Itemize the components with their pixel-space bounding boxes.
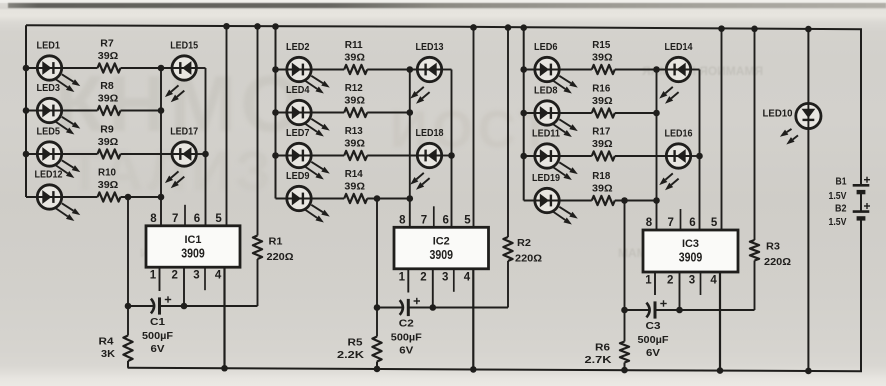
svg-text:5: 5 [215, 213, 222, 225]
svg-text:LED12: LED12 [35, 168, 63, 180]
svg-text:LED18: LED18 [416, 127, 444, 139]
svg-text:7: 7 [667, 217, 673, 229]
svg-text:8: 8 [646, 217, 653, 229]
svg-text:LED3: LED3 [37, 82, 61, 94]
svg-text:LED6: LED6 [534, 41, 558, 53]
svg-text:39Ω: 39Ω [344, 180, 365, 192]
svg-text:IC1: IC1 [185, 234, 202, 246]
svg-text:39Ω: 39Ω [98, 136, 119, 148]
svg-text:500µF: 500µF [638, 334, 670, 346]
svg-text:1: 1 [645, 275, 652, 287]
svg-text:LED15: LED15 [170, 39, 198, 51]
svg-text:4: 4 [464, 271, 471, 283]
svg-text:39Ω: 39Ω [98, 179, 119, 191]
svg-text:39Ω: 39Ω [98, 50, 119, 62]
svg-text:LED8: LED8 [534, 84, 558, 96]
svg-text:2.7K: 2.7K [585, 354, 612, 366]
svg-text:5: 5 [711, 217, 718, 229]
svg-text:220Ω: 220Ω [515, 253, 542, 265]
svg-text:220Ω: 220Ω [267, 251, 294, 263]
svg-text:3: 3 [689, 275, 695, 287]
svg-text:LED1: LED1 [37, 39, 61, 51]
svg-text:3909: 3909 [430, 247, 454, 262]
svg-text:R12: R12 [345, 82, 363, 94]
svg-text:R13: R13 [345, 125, 363, 137]
svg-text:R6: R6 [595, 342, 610, 354]
svg-text:R9: R9 [100, 124, 114, 136]
svg-text:39Ω: 39Ω [344, 94, 365, 106]
svg-text:8: 8 [150, 213, 157, 225]
svg-text:220Ω: 220Ω [764, 256, 791, 268]
svg-text:C1: C1 [150, 316, 165, 328]
svg-text:39Ω: 39Ω [344, 51, 365, 63]
svg-text:LED2: LED2 [286, 41, 310, 53]
svg-text:2: 2 [667, 275, 673, 287]
svg-text:R1: R1 [269, 236, 283, 248]
svg-text:4: 4 [710, 275, 717, 287]
svg-text:R5: R5 [348, 337, 363, 349]
svg-text:R4: R4 [99, 336, 114, 348]
svg-text:LED11: LED11 [532, 127, 560, 139]
svg-text:LED10: LED10 [763, 108, 793, 120]
svg-text:7: 7 [172, 213, 178, 225]
svg-text:LED5: LED5 [37, 125, 61, 137]
svg-text:LED14: LED14 [665, 41, 693, 53]
svg-text:6: 6 [442, 214, 448, 226]
svg-text:R7: R7 [100, 38, 114, 50]
svg-text:LED13: LED13 [416, 41, 444, 53]
svg-text:R17: R17 [592, 126, 610, 138]
svg-text:2: 2 [171, 270, 177, 282]
svg-text:LED4: LED4 [286, 84, 310, 96]
svg-text:R8: R8 [100, 80, 114, 92]
svg-text:LED9: LED9 [286, 170, 310, 182]
svg-text:500µF: 500µF [391, 332, 423, 344]
svg-text:6: 6 [194, 213, 200, 225]
svg-text:5: 5 [464, 214, 471, 226]
svg-text:R18: R18 [592, 170, 610, 182]
svg-text:B1: B1 [836, 175, 847, 187]
svg-text:R10: R10 [98, 167, 116, 179]
svg-text:39Ω: 39Ω [592, 138, 613, 150]
svg-text:R14: R14 [345, 168, 363, 180]
svg-text:IC2: IC2 [433, 236, 450, 248]
svg-text:R11: R11 [345, 39, 363, 51]
svg-text:39Ω: 39Ω [592, 51, 613, 63]
svg-text:39Ω: 39Ω [344, 137, 365, 149]
svg-text:1: 1 [399, 271, 406, 283]
svg-text:3909: 3909 [181, 245, 205, 260]
svg-text:7: 7 [421, 214, 427, 226]
svg-text:1.5V: 1.5V [829, 216, 847, 228]
svg-text:3909: 3909 [679, 250, 703, 265]
svg-text:1.5V: 1.5V [829, 190, 847, 202]
svg-text:LED19: LED19 [532, 172, 560, 184]
svg-text:3: 3 [193, 270, 199, 282]
svg-text:IC3: IC3 [682, 238, 699, 250]
svg-text:500µF: 500µF [142, 330, 174, 342]
svg-text:R3: R3 [766, 241, 780, 253]
svg-text:1: 1 [150, 270, 157, 282]
svg-text:C3: C3 [646, 320, 661, 332]
svg-text:C2: C2 [399, 318, 414, 330]
svg-text:39Ω: 39Ω [98, 92, 119, 104]
svg-text:LED7: LED7 [286, 127, 310, 139]
svg-text:R16: R16 [592, 83, 610, 95]
svg-text:4: 4 [215, 270, 222, 282]
svg-text:39Ω: 39Ω [592, 95, 613, 107]
svg-text:6V: 6V [646, 347, 660, 359]
svg-text:39Ω: 39Ω [592, 182, 613, 194]
svg-text:3K: 3K [101, 348, 115, 360]
svg-text:LED16: LED16 [665, 127, 693, 139]
svg-text:B2: B2 [835, 203, 847, 215]
svg-text:R2: R2 [517, 237, 531, 249]
svg-text:8: 8 [399, 214, 406, 226]
svg-text:LED17: LED17 [170, 125, 198, 137]
svg-text:2.2K: 2.2K [337, 349, 364, 361]
svg-text:6: 6 [689, 217, 695, 229]
svg-text:6V: 6V [151, 343, 165, 355]
svg-text:2: 2 [420, 271, 426, 283]
svg-text:6V: 6V [399, 345, 413, 357]
svg-text:3: 3 [442, 271, 448, 283]
svg-text:R15: R15 [592, 39, 610, 51]
